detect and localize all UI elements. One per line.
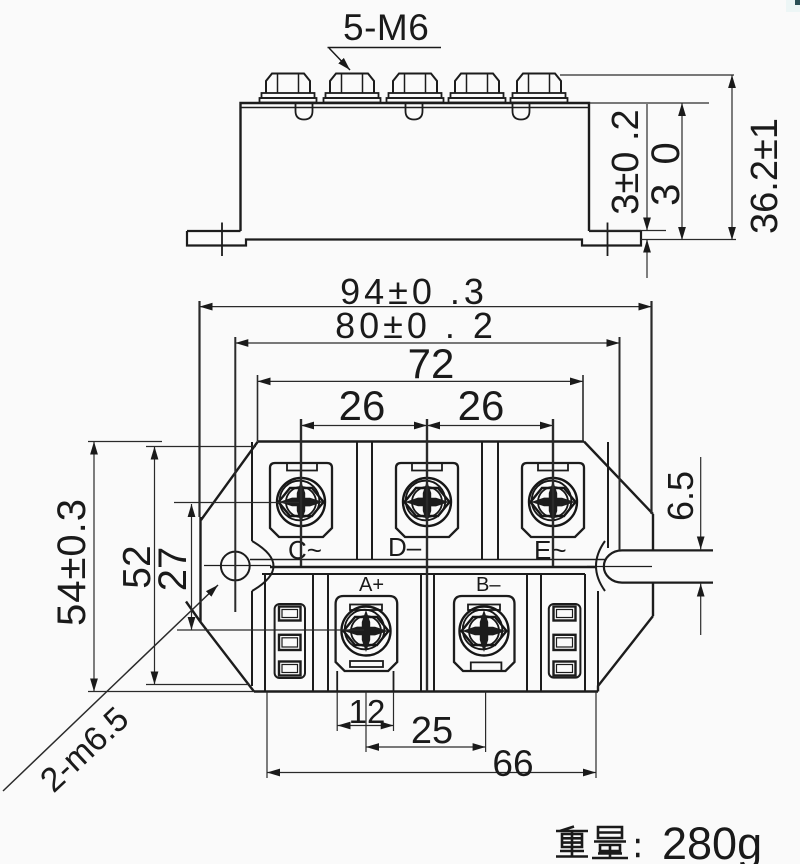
svg-text:36.2±1: 36.2±1 (744, 118, 786, 234)
right vent block (549, 604, 581, 678)
case rib tab 1 (296, 104, 313, 120)
screw B- (460, 607, 509, 656)
weight label 重量: 280g (556, 827, 640, 859)
colon (636, 841, 640, 855)
dim 27 line (191, 504, 193, 630)
svg-text:2-m6.5: 2-m6.5 (33, 700, 136, 800)
side view case body (241, 103, 590, 231)
upper section box edges (252, 442, 608, 560)
dim 52 line (154, 447, 156, 685)
corner smudge (786, 0, 800, 12)
waist line lower boxes top (262, 573, 585, 575)
top bar B- (468, 605, 500, 611)
svg-text:26: 26 (339, 382, 386, 429)
side view case lid second line (241, 107, 590, 109)
svg-text:72: 72 (408, 340, 455, 387)
lower section box edges (265, 574, 585, 692)
pad E~ (522, 463, 584, 537)
dim 72 line (258, 380, 584, 382)
pad A+ (336, 596, 398, 671)
left hole pocket arc (252, 541, 274, 591)
pad notches (287, 463, 568, 692)
bottom notch B- (471, 662, 502, 671)
svg-text:E~: E~ (534, 535, 567, 565)
ext line screw top level (560, 74, 734, 76)
dim 80 line (235, 342, 619, 344)
notch D- (412, 463, 442, 471)
screw S5 (511, 74, 568, 103)
ext line tab top right (589, 230, 666, 232)
right inner contour vertical (597, 591, 599, 686)
terminal screws (277, 478, 577, 656)
terminal pads (270, 463, 584, 671)
screw S2 (324, 74, 381, 103)
screw D- (403, 478, 451, 526)
left tab hole centerline (221, 223, 223, 257)
dimension 36.2±1 line (731, 75, 733, 240)
dim 12 (338, 725, 394, 727)
case rib tab 3 (513, 104, 530, 120)
plan body outline (186, 442, 653, 692)
bottom bar A+ (350, 661, 383, 667)
svg-text:280g: 280g (662, 818, 762, 864)
pad B- (454, 596, 515, 671)
svg-text:66: 66 (492, 743, 533, 784)
dim 26 26 lines (301, 425, 427, 427)
char 重 (556, 827, 588, 857)
svg-text:27: 27 (151, 547, 195, 592)
mounting hole left (221, 552, 250, 581)
right slot pocket arc (596, 541, 605, 591)
svg-text:25: 25 (411, 710, 453, 752)
dimension 30 line (681, 103, 683, 240)
slot centerline (587, 566, 652, 568)
side view base plate and mounting tabs (187, 231, 641, 246)
corner dark mark (795, 0, 800, 5)
pad C~ (270, 463, 332, 537)
side view dimensions (560, 75, 736, 278)
svg-text:5-M6: 5-M6 (343, 7, 429, 48)
screw E~ (529, 478, 577, 526)
svg-text:A+: A+ (359, 574, 384, 596)
ext line base bottom right (641, 239, 736, 241)
screw A+ (342, 607, 391, 656)
right tab hole centerline (607, 223, 609, 257)
leader 2-m6.5 (3, 585, 218, 791)
screw S1 (260, 74, 317, 103)
svg-text:C~: C~ (288, 535, 322, 565)
svg-text:12: 12 (349, 693, 386, 730)
dim 25 (366, 746, 486, 748)
hole centerline (204, 565, 271, 567)
screw S3 (387, 74, 444, 103)
left inner contour vertical (251, 591, 253, 686)
plan view dimensions (3, 301, 701, 791)
dim 66 (267, 772, 596, 774)
svg-text:B–: B– (476, 574, 501, 596)
svg-text:54±0.3: 54±0.3 (50, 498, 94, 626)
svg-text:D–: D– (388, 532, 422, 562)
label 5-M6 with leader (328, 48, 442, 71)
ext line case top right (589, 102, 709, 104)
case rib tab 2 (406, 104, 423, 120)
waist line upper boxes bottom (250, 559, 605, 561)
screw C~ (277, 478, 325, 526)
svg-text:3 0: 3 0 (644, 138, 688, 206)
dimension 3±0.2 line (646, 104, 648, 231)
notch C~ (287, 463, 317, 471)
pad D- (396, 463, 458, 537)
dim 6.5 (700, 457, 702, 549)
A+ tab sides (337, 671, 393, 692)
svg-text:6.5: 6.5 (660, 471, 701, 521)
screws on side view (260, 74, 568, 103)
svg-text:26: 26 (458, 382, 505, 429)
right slot tab (604, 550, 713, 582)
svg-text:3±0 .2: 3±0 .2 (605, 109, 647, 214)
dim 54 line (93, 442, 95, 692)
waist mid divider (270, 566, 596, 569)
left vent block (275, 604, 305, 678)
dim 94 line (200, 306, 652, 308)
notch E~ (538, 463, 568, 471)
char 量 (592, 827, 628, 858)
top bar A+ (350, 605, 382, 611)
screw S4 (449, 74, 506, 103)
